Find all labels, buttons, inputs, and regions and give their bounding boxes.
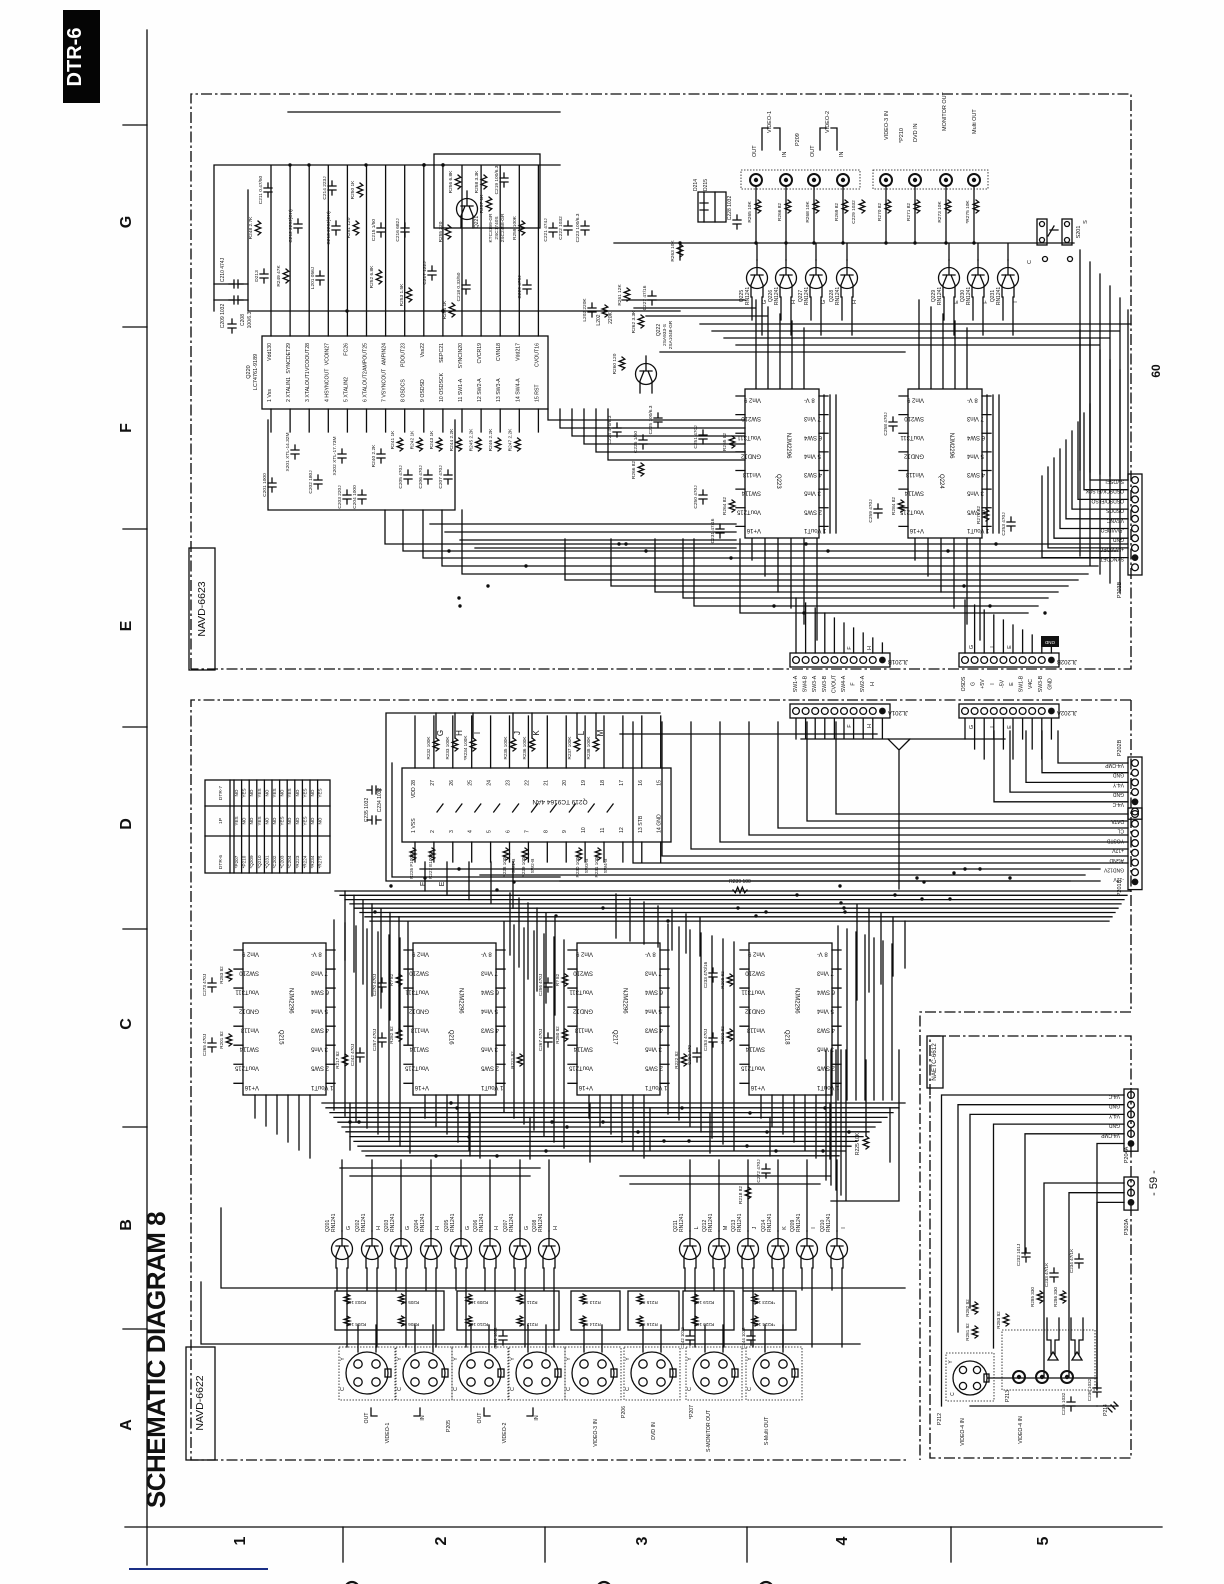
- svg-text:R243 1K: R243 1K: [429, 430, 435, 449]
- connector row P209 P210: [741, 170, 860, 189]
- svg-text:GND: GND: [1047, 678, 1053, 690]
- svg-text:R? 82: R? 82: [389, 973, 394, 986]
- svg-text:Y: Y: [566, 1357, 572, 1361]
- svg-text:OSDSO/FLSO: OSDSO/FLSO: [1091, 497, 1124, 503]
- svg-text:1P: 1P: [218, 818, 224, 824]
- svg-text:CVOUT16: CVOUT16: [534, 343, 540, 367]
- svg-text:SEPC21: SEPC21: [439, 343, 445, 363]
- svg-text:C: C: [397, 1387, 403, 1391]
- svg-text:G: G: [346, 1226, 352, 1230]
- svg-text:8: 8: [543, 830, 549, 833]
- svg-text:OUT: OUT: [477, 1412, 483, 1424]
- svg-text:RN1241: RN1241: [331, 1213, 337, 1232]
- svg-text:RN1241: RN1241: [737, 1213, 743, 1232]
- svg-text:FC26: FC26: [343, 343, 349, 356]
- connector JL201A: [790, 704, 890, 718]
- row C passives: [208, 978, 216, 992]
- svg-text:VouT311: VouT311: [569, 989, 593, 995]
- svg-text:YES: YES: [257, 816, 262, 825]
- svg-text:RN1241: RN1241: [804, 287, 810, 306]
- inter-block channel verticals row C: [334, 920, 892, 1150]
- svg-text:SW114: SW114: [741, 490, 761, 496]
- svg-text:C217 122J: C217 122J: [422, 261, 428, 285]
- svg-text:Vin2 9: Vin2 9: [411, 951, 429, 957]
- svg-text:GND: GND: [1113, 536, 1125, 542]
- svg-text:C: C: [1027, 260, 1033, 264]
- svg-text:OUT: OUT: [810, 145, 816, 157]
- svg-text:JL202B: JL202B: [1057, 658, 1077, 664]
- svg-text:GND: GND: [1109, 1103, 1121, 1109]
- svg-text:R283 82: R283 82: [219, 966, 224, 984]
- svg-text:C250 470J: C250 470J: [693, 485, 699, 509]
- svg-text:C: C: [625, 1387, 631, 1391]
- svg-text:R228 100K: R228 100K: [502, 854, 507, 878]
- svg-text:6 SW4: 6 SW4: [816, 989, 835, 995]
- svg-text:4 SW3: 4 SW3: [816, 1027, 835, 1033]
- svg-text:R271 82: R271 82: [906, 203, 912, 221]
- svg-text:L: L: [694, 1226, 700, 1229]
- svg-text:C: C: [687, 1387, 693, 1391]
- svg-text:C218 0.33/50: C218 0.33/50: [456, 272, 462, 301]
- svg-text:C241 1032: C241 1032: [493, 1327, 498, 1349]
- svg-text:SYNCIN20: SYNCIN20: [458, 343, 464, 368]
- svg-text:SW210: SW210: [239, 970, 259, 976]
- svg-text:Vin113: Vin113: [746, 1027, 765, 1033]
- svg-text:R266 82: R266 82: [631, 461, 637, 479]
- svg-text:OSDS: OSDS: [961, 676, 967, 691]
- svg-text:C233 470/16: C233 470/16: [703, 961, 708, 988]
- svg-text:G: G: [971, 682, 977, 686]
- svg-text:Y: Y: [747, 1357, 753, 1361]
- svg-text:Vin2 9: Vin2 9: [575, 951, 593, 957]
- svg-text:8 V-: 8 V-: [481, 951, 492, 957]
- svg-text:*P210: *P210: [242, 855, 247, 868]
- svg-text:NAVD-6623: NAVD-6623: [196, 581, 208, 636]
- svg-text:R264 82: R264 82: [722, 497, 728, 515]
- svg-text:R236 100K: R236 100K: [522, 736, 527, 760]
- svg-text:RN1241: RN1241: [826, 1213, 832, 1232]
- resistors above Q219: [433, 738, 439, 751]
- svg-text:R240 2.2K: R240 2.2K: [371, 444, 377, 467]
- svg-text:SW114: SW114: [239, 1046, 259, 1052]
- svg-text:*P207: *P207: [689, 1405, 695, 1419]
- svg-text:SW210: SW210: [904, 415, 924, 421]
- svg-text:+12V: +12V: [1112, 847, 1124, 853]
- svg-text:R233 100K: R233 100K: [445, 736, 450, 760]
- svg-text:R282 82: R282 82: [965, 1299, 970, 1317]
- board label NAVD-6622: [186, 1347, 215, 1460]
- svg-text:16: 16: [638, 780, 644, 786]
- svg-text:K: K: [782, 1226, 788, 1230]
- svg-text:H: H: [867, 646, 873, 650]
- svg-text:NO: NO: [249, 789, 254, 796]
- svg-text:2 SW5: 2 SW5: [966, 508, 985, 514]
- svg-text:5 Vin4: 5 Vin4: [816, 1008, 834, 1014]
- svg-text:R229 100K: R229 100K: [521, 854, 526, 878]
- svg-text:V+16: V+16: [746, 527, 761, 533]
- svg-text:100/6.3: 100/6.3: [247, 311, 253, 328]
- svg-text:NO: NO: [295, 789, 300, 796]
- svg-text:5: 5: [1035, 1536, 1052, 1545]
- svg-text:S: S: [1083, 220, 1089, 224]
- svg-text:R286 330: R286 330: [1053, 1287, 1058, 1307]
- junction dots top block: [754, 241, 757, 244]
- svg-text:R235 100K: R235 100K: [503, 736, 508, 760]
- svg-text:5 Vin4: 5 Vin4: [480, 1008, 498, 1014]
- svg-text:E: E: [1009, 682, 1015, 686]
- svg-text:C209 1032: C209 1032: [220, 304, 226, 329]
- svg-text:RN1241: RN1241: [538, 1213, 544, 1232]
- svg-text:C: C: [118, 1018, 135, 1030]
- board label NAETC-6612: [927, 1036, 943, 1088]
- svg-text:2 SW5: 2 SW5: [644, 1065, 663, 1071]
- svg-text:NO: NO: [310, 789, 315, 796]
- horizontal bus under Q219: [335, 869, 1130, 921]
- svg-text:R247 2.2K: R247 2.2K: [508, 428, 514, 451]
- svg-text:Q215: Q215: [278, 1030, 284, 1045]
- svg-text:18: 18: [600, 780, 606, 786]
- svg-text:M: M: [596, 729, 605, 736]
- svg-text:P303A: P303A: [1124, 1218, 1130, 1235]
- svg-text:17: 17: [619, 780, 625, 786]
- svg-text:C: C: [340, 1387, 346, 1391]
- svg-text:P212: P212: [937, 1413, 943, 1425]
- svg-text:V+16: V+16: [578, 1084, 593, 1090]
- svg-text:YES: YES: [302, 816, 307, 825]
- crystal section: [268, 478, 276, 492]
- svg-text:2: 2: [433, 1536, 450, 1545]
- svg-text:D: D: [118, 818, 135, 830]
- svg-text:*R234: *R234: [310, 855, 315, 868]
- svg-text:7 Vin3: 7 Vin3: [803, 415, 821, 421]
- svg-text:H: H: [852, 300, 858, 304]
- svg-text:R231 100K: R231 100K: [594, 854, 599, 878]
- svg-text:G: G: [465, 1226, 471, 1230]
- svg-text:H: H: [870, 682, 876, 686]
- svg-text:4 SW3: 4 SW3: [310, 1027, 329, 1033]
- svg-text:C232 101J: C232 101J: [1016, 1244, 1021, 1266]
- svg-text:C236 1032: C236 1032: [1087, 1378, 1092, 1401]
- svg-text:R261 12K: R261 12K: [617, 284, 623, 306]
- svg-text:R232 100K: R232 100K: [426, 736, 431, 760]
- svg-text:H: H: [791, 300, 797, 304]
- svg-text:RN1241: RN1241: [450, 1213, 456, 1232]
- svg-text:NO: NO: [264, 817, 269, 824]
- svg-text:SW210: SW210: [573, 970, 593, 976]
- svg-text:8 V-: 8 V-: [311, 951, 322, 957]
- svg-text:R285 330: R285 330: [1030, 1287, 1035, 1307]
- svg-text:S201: S201: [1076, 226, 1082, 239]
- svg-text:Q217: Q217: [612, 1030, 618, 1045]
- svg-text:R268 10K: R268 10K: [805, 201, 811, 223]
- svg-text:20: 20: [562, 780, 568, 786]
- svg-text:R214 82: R214 82: [583, 1322, 601, 1327]
- svg-text:OSDSCK/FLSCK: OSDSCK/FLSCK: [1085, 488, 1124, 494]
- svg-text:V+16: V+16: [750, 1084, 765, 1090]
- svg-text:4 SW3: 4 SW3: [966, 471, 985, 477]
- svg-text:CL: CL: [1117, 828, 1124, 834]
- svg-text:VIDEO-3 IN: VIDEO-3 IN: [884, 111, 890, 140]
- Q223 Q224 passives: [699, 430, 707, 444]
- caps C234 C235: [367, 786, 381, 794]
- svg-text:H: H: [867, 724, 873, 728]
- svg-text:C204 1000: C204 1000: [352, 485, 358, 509]
- svg-text:19: 19: [581, 780, 587, 786]
- svg-text:YOSTB: YOSTB: [1106, 837, 1124, 843]
- svg-text:C253 470J: C253 470J: [703, 1029, 708, 1051]
- svg-text:Vin113: Vin113: [240, 1027, 259, 1033]
- svg-text:NJM2296: NJM2296: [948, 433, 954, 459]
- svg-text:-5VVIDEO: -5VVIDEO: [1101, 527, 1124, 533]
- svg-text:G: G: [405, 1226, 411, 1230]
- svg-text:RN1241: RN1241: [679, 1213, 685, 1232]
- svg-text:DTR-6: DTR-6: [218, 855, 224, 869]
- svg-text:E: E: [439, 881, 446, 886]
- svg-text:P209: P209: [795, 133, 801, 146]
- svg-text:SW210: SW210: [745, 970, 765, 976]
- svg-text:9 OSDSD: 9 OSDSD: [420, 379, 426, 402]
- capacitor C209 C210: [229, 280, 243, 288]
- long bus wires left side bottom block: [201, 1208, 905, 1344]
- svg-text:*P207: *P207: [234, 855, 239, 868]
- svg-text:R266 82: R266 82: [777, 203, 783, 221]
- right side long verticals: [826, 1050, 899, 1201]
- svg-text:3 XTALOUT1: 3 XTALOUT1: [305, 371, 311, 402]
- svg-text:7 Vin3: 7 Vin3: [480, 970, 498, 976]
- svg-text:C242 470J: C242 470J: [350, 1044, 355, 1066]
- svg-text:1: 1: [232, 1536, 249, 1545]
- svg-text:R252 6.8K: R252 6.8K: [369, 265, 375, 288]
- svg-text:IN: IN: [420, 1415, 426, 1420]
- connector P202B: [1128, 757, 1142, 819]
- svg-text:RN1241: RN1241: [996, 287, 1002, 306]
- svg-text:SW2-B: SW2-B: [530, 859, 535, 874]
- svg-text:R260 120: R260 120: [612, 353, 618, 374]
- svg-text:C206 470J: C206 470J: [418, 465, 424, 489]
- zone border left: [146, 30, 148, 1565]
- svg-text:Vdd217: Vdd217: [515, 343, 521, 361]
- svg-text:V+16: V+16: [909, 527, 924, 533]
- svg-text:E: E: [1007, 725, 1013, 729]
- svg-text:H: H: [553, 1226, 559, 1230]
- svg-text:P213: P213: [1005, 1390, 1011, 1402]
- svg-text:R250 1K: R250 1K: [350, 180, 356, 199]
- svg-text:26: 26: [449, 780, 455, 786]
- svg-text:F: F: [118, 423, 135, 433]
- svg-text:B: B: [118, 1219, 135, 1231]
- svg-text:R226 F100K: R226 F100K: [409, 852, 414, 879]
- svg-text:H: H: [455, 730, 464, 736]
- svg-text:H: H: [376, 1226, 382, 1230]
- svg-text:V4-C: V4-C: [1108, 1093, 1120, 1099]
- svg-text:SVOSEL: SVOSEL: [1104, 478, 1124, 484]
- svg-text:1 VouT1: 1 VouT1: [480, 1084, 503, 1090]
- svg-text:8 V-: 8 V-: [804, 397, 815, 403]
- svg-text:RN1241: RN1241: [774, 287, 780, 306]
- svg-text:*R224 10K: *R224 10K: [752, 1322, 775, 1327]
- svg-text:G: G: [969, 645, 975, 649]
- svg-text:JL202A: JL202A: [1057, 709, 1077, 715]
- svg-text:SW2-A: SW2-A: [860, 675, 866, 692]
- svg-text:VCOOUT28: VCOOUT28: [305, 343, 311, 371]
- svg-text:C229 1032: C229 1032: [851, 200, 857, 224]
- svg-text:R255 220: R255 220: [438, 221, 444, 242]
- P303A wires: [1044, 1183, 1124, 1390]
- svg-text:R210 10K: R210 10K: [467, 1322, 488, 1327]
- wire rect around Q219: [386, 713, 1100, 881]
- verticals from JL202A region down right channel: [857, 905, 905, 1000]
- svg-text:L201 056J: L201 056J: [310, 266, 316, 289]
- svg-text:C235 1032: C235 1032: [364, 798, 370, 823]
- Q220 bottom pin wires: [214, 112, 680, 432]
- switch S201: [1037, 219, 1047, 245]
- svg-text:R212 82: R212 82: [520, 1322, 538, 1327]
- svg-text:2: 2: [430, 830, 436, 833]
- svg-text:11 SW1-A: 11 SW1-A: [458, 378, 464, 402]
- svg-text:C234 1032: C234 1032: [377, 788, 383, 813]
- svg-text:2SA1048-GR: 2SA1048-GR: [668, 320, 674, 349]
- svg-text:VouT215: VouT215: [568, 1065, 593, 1071]
- svg-text:*Q231: *Q231: [264, 855, 269, 868]
- svg-text:8 V-: 8 V-: [967, 397, 978, 403]
- svg-text:G: G: [118, 216, 135, 228]
- svg-text:G: G: [821, 300, 827, 304]
- svg-text:Vin2 9: Vin2 9: [906, 397, 924, 403]
- svg-text:C208: C208: [240, 314, 246, 326]
- svg-text:5 Vin4: 5 Vin4: [644, 1008, 662, 1014]
- bus top block lower: [385, 510, 1128, 613]
- svg-text:R227 E100K: R227 E100K: [428, 852, 433, 879]
- svg-text:SW210: SW210: [741, 415, 761, 421]
- svg-text:13 STB: 13 STB: [638, 815, 644, 833]
- connector JL202B: [959, 653, 1059, 667]
- svg-text:SYNCDET: SYNCDET: [1100, 556, 1124, 562]
- svg-text:R220 10K: R220 10K: [693, 1322, 714, 1327]
- svg-text:RN1241: RN1241: [835, 287, 841, 306]
- svg-text:C205 470J: C205 470J: [398, 465, 404, 489]
- svg-text:Y: Y: [510, 1357, 516, 1361]
- svg-text:12: 12: [619, 827, 625, 833]
- svg-text:YES: YES: [318, 788, 323, 797]
- svg-text:Q222: Q222: [656, 324, 662, 336]
- svg-text:R219 10K: R219 10K: [693, 1300, 714, 1305]
- svg-text:I: I: [990, 683, 996, 684]
- svg-text:C213 220J(CH): C213 220J(CH): [326, 211, 332, 245]
- svg-text:R217 82: R217 82: [335, 1051, 340, 1069]
- svg-text:MONITOR OUT: MONITOR OUT: [942, 91, 948, 131]
- svg-text:V4-Y: V4-Y: [1112, 781, 1124, 787]
- svg-text:*C202: *C202: [272, 855, 277, 868]
- terminal resistors: [755, 200, 761, 213]
- svg-text:6 SW4: 6 SW4: [310, 989, 329, 995]
- svg-text:VCOIN27: VCOIN27: [324, 343, 330, 365]
- svg-text:Q218: Q218: [784, 1030, 790, 1045]
- svg-text:P205: P205: [446, 1420, 452, 1432]
- svg-text:YES: YES: [302, 788, 307, 797]
- svg-text:KTC3199-GR: KTC3199-GR: [488, 213, 494, 243]
- svg-text:3 Vin5: 3 Vin5: [644, 1046, 662, 1052]
- svg-text:IN: IN: [782, 151, 788, 157]
- svg-text:7 VSYNCOUT: 7 VSYNCOUT: [382, 368, 388, 402]
- svg-text:VIDEO-4 IN: VIDEO-4 IN: [960, 1418, 966, 1446]
- svg-text:C: C: [566, 1387, 572, 1391]
- svg-text:GND: GND: [1109, 1122, 1121, 1128]
- svg-text:C216 682J: C216 682J: [395, 218, 401, 242]
- svg-text:2 SW5: 2 SW5: [480, 1065, 499, 1071]
- svg-text:6 SW4: 6 SW4: [966, 434, 985, 440]
- top-left passives: [264, 183, 272, 197]
- svg-text:R245 2.2K: R245 2.2K: [468, 428, 474, 451]
- svg-text:V4-Y: V4-Y: [1108, 1112, 1120, 1118]
- svg-text:2 SW5: 2 SW5: [310, 1065, 329, 1071]
- svg-text:R242 1K: R242 1K: [410, 430, 416, 449]
- svg-text:OUT: OUT: [364, 1412, 370, 1424]
- svg-text:NO: NO: [234, 789, 239, 796]
- svg-text:VouT311: VouT311: [737, 434, 761, 440]
- svg-text:V+16: V+16: [244, 1084, 259, 1090]
- svg-text:6 SW4: 6 SW4: [803, 434, 822, 440]
- svg-text:NJM2296: NJM2296: [288, 988, 294, 1014]
- svg-text:R256 6.8K: R256 6.8K: [448, 170, 454, 193]
- wires top block: [548, 186, 1131, 480]
- svg-text:R204 10K: R204 10K: [345, 1322, 366, 1327]
- svg-text:4: 4: [834, 1536, 851, 1545]
- svg-text:I: I: [473, 732, 482, 734]
- svg-text:R274 82: R274 82: [976, 506, 982, 524]
- svg-text:C272 470J: C272 470J: [756, 1159, 762, 1183]
- svg-text:J: J: [752, 1226, 758, 1229]
- svg-text:6 XTALOUT2: 6 XTALOUT2: [363, 371, 369, 402]
- svg-text:- 59 -: - 59 -: [1148, 1170, 1160, 1196]
- svg-text:R257 1K: R257 1K: [479, 194, 485, 213]
- svg-text:4: 4: [468, 830, 474, 833]
- NAETC passives: [972, 1302, 978, 1314]
- wire mesh JL201A down feeds: [620, 719, 1005, 739]
- svg-text:VIDEO-1: VIDEO-1: [767, 111, 773, 133]
- board outline NAVD-6623: [191, 94, 1131, 669]
- svg-text:1 VouT1: 1 VouT1: [966, 527, 989, 533]
- svg-text:+5V: +5V: [980, 679, 986, 689]
- svg-text:R211 82: R211 82: [520, 1300, 537, 1305]
- svg-text:DVD IN: DVD IN: [651, 1422, 657, 1440]
- svg-text:C207 470J: C207 470J: [438, 465, 444, 489]
- svg-text:R209 10K: R209 10K: [467, 1300, 488, 1305]
- NAETC wires: [942, 1095, 1125, 1406]
- svg-text:2 SW5: 2 SW5: [803, 508, 822, 514]
- svg-text:R269 82: R269 82: [834, 203, 840, 221]
- svg-text:2SC1740S: 2SC1740S: [494, 216, 500, 239]
- svg-text:PDOUT23: PDOUT23: [401, 343, 407, 367]
- board label NAVD-6623: [189, 548, 215, 670]
- svg-text:P203B: P203B: [1117, 581, 1123, 598]
- svg-text:R283 82: R283 82: [996, 1311, 1001, 1329]
- svg-text:L202 220K: L202 220K: [582, 298, 588, 322]
- Y merge wire: [888, 739, 910, 889]
- svg-text:R230 100K: R230 100K: [575, 854, 580, 878]
- bus stitch verticals: [350, 1103, 890, 1162]
- svg-text:*C203: *C203: [280, 855, 285, 868]
- svg-text:R253 1.5K: R253 1.5K: [399, 283, 405, 306]
- svg-text:1 VouT1: 1 VouT1: [644, 1084, 667, 1090]
- svg-text:R281 82: R281 82: [965, 1323, 970, 1341]
- svg-text:R213 82: R213 82: [583, 1300, 601, 1305]
- svg-text:NJM2296: NJM2296: [622, 988, 628, 1014]
- svg-text:P201B: P201B: [1117, 879, 1123, 896]
- svg-text:E: E: [118, 620, 135, 631]
- svg-text:R222 82: R222 82: [674, 1051, 679, 1069]
- svg-text:R218 82: R218 82: [738, 1186, 744, 1204]
- svg-text:R215 82: R215 82: [640, 1300, 658, 1305]
